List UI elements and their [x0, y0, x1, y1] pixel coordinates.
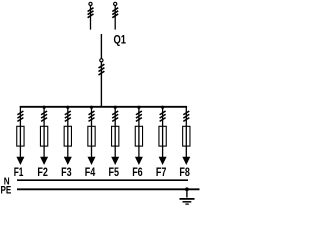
outgoing arrow F6	[135, 157, 143, 165]
fuse F3 body	[64, 126, 71, 146]
conductor slashes on Q1 (3 phases)	[99, 64, 105, 75]
incoming feeder disconnect 2 (circle terminal)	[114, 2, 117, 5]
wire: incoming feeder 1 drop	[90, 6, 92, 30]
branch F2	[37, 106, 48, 179]
wire: branch F8	[185, 106, 187, 159]
branch F8	[179, 106, 190, 179]
wire: Q1 upper stub	[100, 34, 102, 59]
neutral rail N	[17, 179, 188, 181]
fuse F8 body	[183, 126, 190, 146]
junction: branch F2	[43, 106, 46, 109]
svg-text:Q1: Q1	[114, 33, 127, 47]
fuse F6 body	[135, 126, 142, 146]
outgoing arrow F8	[182, 157, 190, 165]
conductor slashes F8	[183, 111, 189, 121]
outgoing arrow F5	[111, 157, 119, 165]
busbar	[20, 106, 187, 108]
branch F5	[109, 106, 120, 179]
conductor slashes F6	[136, 111, 142, 121]
svg-text:F6: F6	[132, 165, 143, 179]
junction: PE to earth	[185, 187, 189, 191]
svg-text:PE: PE	[1, 185, 12, 197]
wire: branch F6	[138, 106, 140, 159]
outgoing arrow F3	[64, 157, 72, 165]
earth bar 2	[183, 201, 192, 203]
Q1 contact circle	[100, 59, 103, 62]
wire: branch F1	[19, 106, 21, 159]
fuse F7 body	[159, 126, 166, 146]
svg-text:F2: F2	[37, 165, 48, 179]
svg-text:F7: F7	[156, 165, 167, 179]
conductor slashes F2	[41, 111, 47, 121]
incoming feeder disconnect 1 (circle terminal)	[89, 2, 92, 5]
conductor slashes on feeder 1 (3 phases)	[88, 8, 94, 18]
svg-text:F5: F5	[109, 165, 120, 179]
wire: branch F3	[67, 106, 69, 159]
PE rail	[17, 188, 200, 190]
svg-text:F4: F4	[85, 165, 96, 179]
svg-text:F1: F1	[14, 165, 24, 179]
outgoing arrow F2	[40, 157, 48, 165]
outgoing arrow F7	[159, 157, 167, 165]
earth bar 3	[185, 203, 188, 205]
outgoing arrow F1	[16, 157, 24, 165]
svg-text:F8: F8	[179, 165, 190, 179]
branch F7	[156, 106, 167, 179]
junction: branch F5	[114, 106, 117, 109]
conductor slashes F7	[160, 111, 166, 121]
fuse F5 body	[112, 126, 119, 146]
fuse F1 body	[17, 126, 24, 146]
wire: branch F7	[162, 106, 164, 159]
outgoing arrow F4	[88, 157, 96, 165]
conductor slashes F5	[112, 111, 118, 121]
wire: branch F2	[43, 106, 45, 159]
junction: branch F3	[66, 106, 69, 109]
branch F4	[85, 106, 96, 179]
branch F1	[14, 106, 25, 179]
wire: Q1 to busbar	[100, 62, 102, 108]
conductor slashes F3	[65, 111, 71, 121]
fuse F4 body	[88, 126, 95, 146]
wire: PE drop to earth	[186, 189, 188, 197]
branch F3	[61, 106, 72, 179]
fuse F2 body	[40, 126, 47, 146]
junction: branch F4	[90, 106, 93, 109]
conductor slashes F1	[17, 111, 23, 121]
wire: branch F5	[114, 106, 116, 159]
junction: branch F6	[137, 106, 140, 109]
wire: branch F4	[91, 106, 93, 159]
wire: incoming feeder 2 drop	[114, 6, 116, 30]
earth bar 1	[180, 198, 195, 200]
conductor slashes F4	[89, 111, 95, 121]
junction: branch F7	[161, 106, 164, 109]
branch F6	[132, 106, 143, 179]
main switch Q1 (circle contact + 3-phase slashes)	[99, 34, 105, 108]
earth / ground symbol	[180, 189, 195, 204]
svg-text:F3: F3	[61, 165, 72, 179]
conductor slashes on feeder 2 (3 phases)	[112, 8, 118, 18]
